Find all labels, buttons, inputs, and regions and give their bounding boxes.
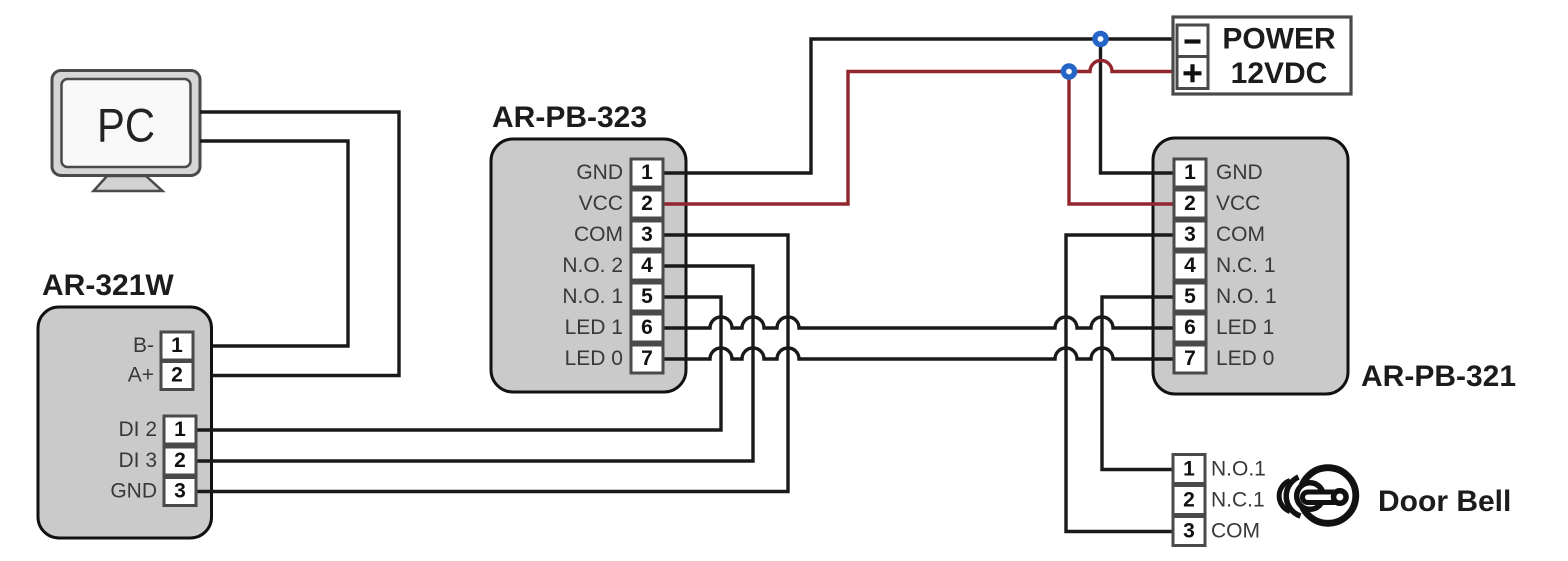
- svg-text:AR-PB-323: AR-PB-323: [492, 101, 647, 134]
- pin 7 LED0 AR-PB-321: [1174, 345, 1274, 373]
- door bell terminal pin 1 N.O.1: [1173, 455, 1266, 484]
- svg-text:COM: COM: [1211, 520, 1260, 543]
- block AR-321W: [38, 307, 212, 538]
- svg-text:AR-PB-321: AR-PB-321: [1361, 360, 1516, 393]
- svg-text:3: 3: [1183, 520, 1195, 543]
- svg-text:1: 1: [171, 334, 183, 357]
- pin 4 N.O.2 AR-PB-323: [562, 252, 663, 280]
- wire PC to B- (AR-321W pin 1): [194, 141, 348, 346]
- svg-text:N.O. 1: N.O. 1: [1216, 285, 1277, 308]
- junction node GND (blue): [1092, 31, 1109, 48]
- pin 1 B- AR-321W: [133, 332, 193, 360]
- svg-text:B-: B-: [133, 334, 154, 357]
- svg-text:GND: GND: [110, 480, 157, 503]
- svg-text:LED 1: LED 1: [565, 316, 623, 339]
- pin 1 DI2 AR-321W: [118, 416, 196, 444]
- block AR-PB-323: [491, 139, 686, 392]
- svg-text:6: 6: [1184, 316, 1196, 339]
- svg-text:3: 3: [1184, 223, 1196, 246]
- svg-text:AR-321W: AR-321W: [42, 269, 174, 302]
- svg-text:2: 2: [1183, 489, 1195, 512]
- svg-text:1: 1: [1183, 458, 1195, 481]
- svg-text:LED 0: LED 0: [565, 347, 623, 370]
- svg-text:7: 7: [1184, 347, 1196, 370]
- wire GND AR-PB-323 pin1 to POWER minus: [663, 39, 1177, 173]
- svg-text:4: 4: [1184, 254, 1196, 277]
- wire branch GND node to AR-PB-321 pin1: [1101, 39, 1177, 173]
- svg-text:DI 2: DI 2: [118, 418, 157, 441]
- door bell terminal pin 3 COM: [1173, 517, 1260, 546]
- pin 1 GND AR-PB-321: [1174, 159, 1263, 187]
- svg-text:GND: GND: [576, 161, 623, 184]
- wire N.O.2 AR-PB-323 pin4 to AR-321W DI3: [197, 266, 753, 461]
- PC monitor stand: [94, 176, 163, 191]
- pin 6 LED1 AR-PB-321: [1174, 314, 1274, 342]
- svg-text:3: 3: [641, 223, 653, 246]
- svg-text:1: 1: [1184, 161, 1196, 184]
- pin 2 VCC AR-PB-323: [579, 190, 663, 218]
- svg-text:Door Bell: Door Bell: [1378, 485, 1511, 518]
- svg-text:6: 6: [641, 316, 653, 339]
- svg-text:2: 2: [171, 364, 183, 387]
- pin 2 VCC AR-PB-321: [1174, 190, 1260, 218]
- PC monitor body: [52, 71, 200, 176]
- svg-text:N.C.1: N.C.1: [1211, 489, 1265, 512]
- pin 5 N.O.1 AR-PB-323: [562, 283, 663, 311]
- pin 2 A+ AR-321W: [128, 362, 193, 390]
- svg-text:COM: COM: [1216, 223, 1265, 246]
- pin 1 GND AR-PB-323: [576, 159, 663, 187]
- wire N.O.1 AR-PB-323 pin5 to AR-321W DI2: [197, 297, 721, 430]
- svg-text:3: 3: [174, 480, 186, 503]
- junction node VCC (blue): [1061, 63, 1078, 80]
- pin 3 COM AR-PB-323: [574, 221, 663, 249]
- block AR-PB-321: [1153, 138, 1348, 394]
- svg-text:VCC: VCC: [579, 192, 623, 215]
- svg-text:5: 5: [1184, 285, 1196, 308]
- pin 4 N.C.1 AR-PB-321: [1174, 252, 1276, 280]
- svg-text:POWER: POWER: [1222, 23, 1336, 56]
- power supply POWER 12VDC: [1173, 17, 1351, 94]
- svg-text:PC: PC: [97, 99, 155, 152]
- minus terminal symbol: [1185, 39, 1201, 43]
- svg-text:GND: GND: [1216, 161, 1263, 184]
- pin 2 DI3 AR-321W: [118, 447, 196, 475]
- svg-text:N.O. 1: N.O. 1: [562, 285, 623, 308]
- wire N.O.1 AR-PB-321 pin5 to Door Bell pin1: [1102, 297, 1176, 470]
- svg-text:1: 1: [174, 418, 186, 441]
- pin 3 GND AR-321W: [110, 478, 196, 506]
- wire branch VCC node to AR-PB-321 pin2 (red): [1069, 72, 1176, 205]
- svg-text:A+: A+: [128, 364, 154, 387]
- wire COM AR-PB-321 pin3 to Door Bell pin3: [1066, 235, 1176, 532]
- svg-text:N.O.1: N.O.1: [1211, 458, 1266, 481]
- svg-text:7: 7: [641, 347, 653, 370]
- wire VCC AR-PB-323 pin2 to POWER plus (red, hop over GND vertical): [663, 61, 1177, 205]
- plus terminal symbol: [1184, 64, 1202, 82]
- door bell icon: [1279, 468, 1356, 524]
- svg-text:LED 1: LED 1: [1216, 316, 1274, 339]
- pin 5 N.O.1 AR-PB-321: [1174, 283, 1277, 311]
- wire LED0 AR-PB-323 pin7 to AR-PB-321 pin7 (hops over crossing wires): [663, 348, 1176, 359]
- pin 6 LED1 AR-PB-323: [565, 314, 663, 342]
- door bell terminal pin 2 N.C.1: [1173, 486, 1265, 515]
- svg-text:COM: COM: [574, 223, 623, 246]
- svg-text:5: 5: [641, 285, 653, 308]
- svg-text:12VDC: 12VDC: [1231, 57, 1328, 90]
- svg-text:1: 1: [641, 161, 653, 184]
- svg-text:2: 2: [641, 192, 653, 215]
- pin 3 COM AR-PB-321: [1174, 221, 1265, 249]
- svg-text:2: 2: [174, 449, 186, 472]
- svg-text:4: 4: [641, 254, 653, 277]
- svg-text:LED 0: LED 0: [1216, 347, 1274, 370]
- wire PC to A+ (AR-321W pin 2): [194, 112, 399, 376]
- svg-text:N.O. 2: N.O. 2: [562, 254, 623, 277]
- svg-text:N.C. 1: N.C. 1: [1216, 254, 1276, 277]
- pin 7 LED0 AR-PB-323: [565, 345, 663, 373]
- svg-text:VCC: VCC: [1216, 192, 1260, 215]
- wire LED1 AR-PB-323 pin6 to AR-PB-321 pin6 (hops over crossing wires): [663, 317, 1176, 328]
- wire COM AR-PB-323 pin3 to AR-321W GND: [197, 235, 788, 492]
- svg-text:DI 3: DI 3: [118, 449, 157, 472]
- svg-text:2: 2: [1184, 192, 1196, 215]
